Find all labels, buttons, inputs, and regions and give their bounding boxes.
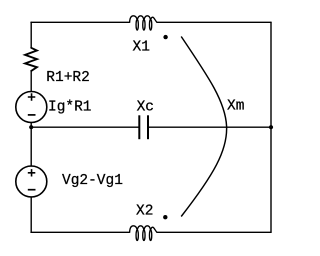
- capacitor Xc right plate: [147, 115, 149, 139]
- svg-text:Vg2-Vg1: Vg2-Vg1: [62, 173, 123, 189]
- voltage source U1 (Ig*R1): [16, 92, 47, 123]
- wire top right segment: [157, 21, 271, 23]
- inductor X1: [130, 16, 157, 30]
- wire left top (corner to resistor): [30, 22, 32, 48]
- svg-text:R1+R2: R1+R2: [46, 70, 90, 86]
- minus sign of U2: [28, 189, 36, 191]
- wire source V2 to bottom corner: [30, 197, 32, 232]
- node A (junction dot left): [29, 125, 33, 129]
- phase dot of X2: [163, 215, 167, 219]
- plus sign of U2: [28, 169, 36, 176]
- svg-text:Xm: Xm: [227, 99, 244, 115]
- wire bottom right segment: [157, 231, 271, 233]
- phase dot of X1: [163, 35, 167, 39]
- wire top left segment: [31, 21, 130, 23]
- wire resistor to source V1: [30, 71, 32, 92]
- capacitor Xc left plate: [138, 115, 140, 139]
- plus sign of U1: [28, 93, 36, 100]
- wire source V1 to node: [30, 123, 32, 167]
- node B (junction dot right): [269, 125, 273, 129]
- inductor X2: [130, 226, 157, 241]
- wire middle right (capacitor to right border): [148, 126, 271, 128]
- resistor R1+R2: [25, 48, 37, 71]
- mutual coupling arc Xm: [181, 37, 226, 217]
- wire bottom left segment: [31, 231, 130, 233]
- svg-text:Ig*R1: Ig*R1: [48, 99, 92, 115]
- wire middle left (node to capacitor): [31, 126, 139, 128]
- svg-text:Xc: Xc: [137, 100, 154, 116]
- wire right border: [270, 22, 272, 232]
- voltage source U2 (Vg2-Vg1): [16, 166, 47, 197]
- svg-text:X2: X2: [136, 204, 153, 220]
- minus sign of U1: [28, 114, 36, 116]
- svg-text:X1: X1: [133, 39, 150, 55]
